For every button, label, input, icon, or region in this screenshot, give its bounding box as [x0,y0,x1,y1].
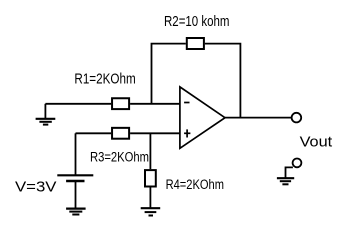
svg-text:V=3V: V=3V [15,179,57,196]
svg-text:R1=2KOhm: R1=2KOhm [74,71,135,87]
svg-text:R4=2KOhm: R4=2KOhm [166,177,224,192]
svg-text:Vout: Vout [300,133,333,150]
svg-text:R2=10 kohm: R2=10 kohm [164,14,230,30]
svg-text:R3=2KOhm: R3=2KOhm [90,149,149,164]
